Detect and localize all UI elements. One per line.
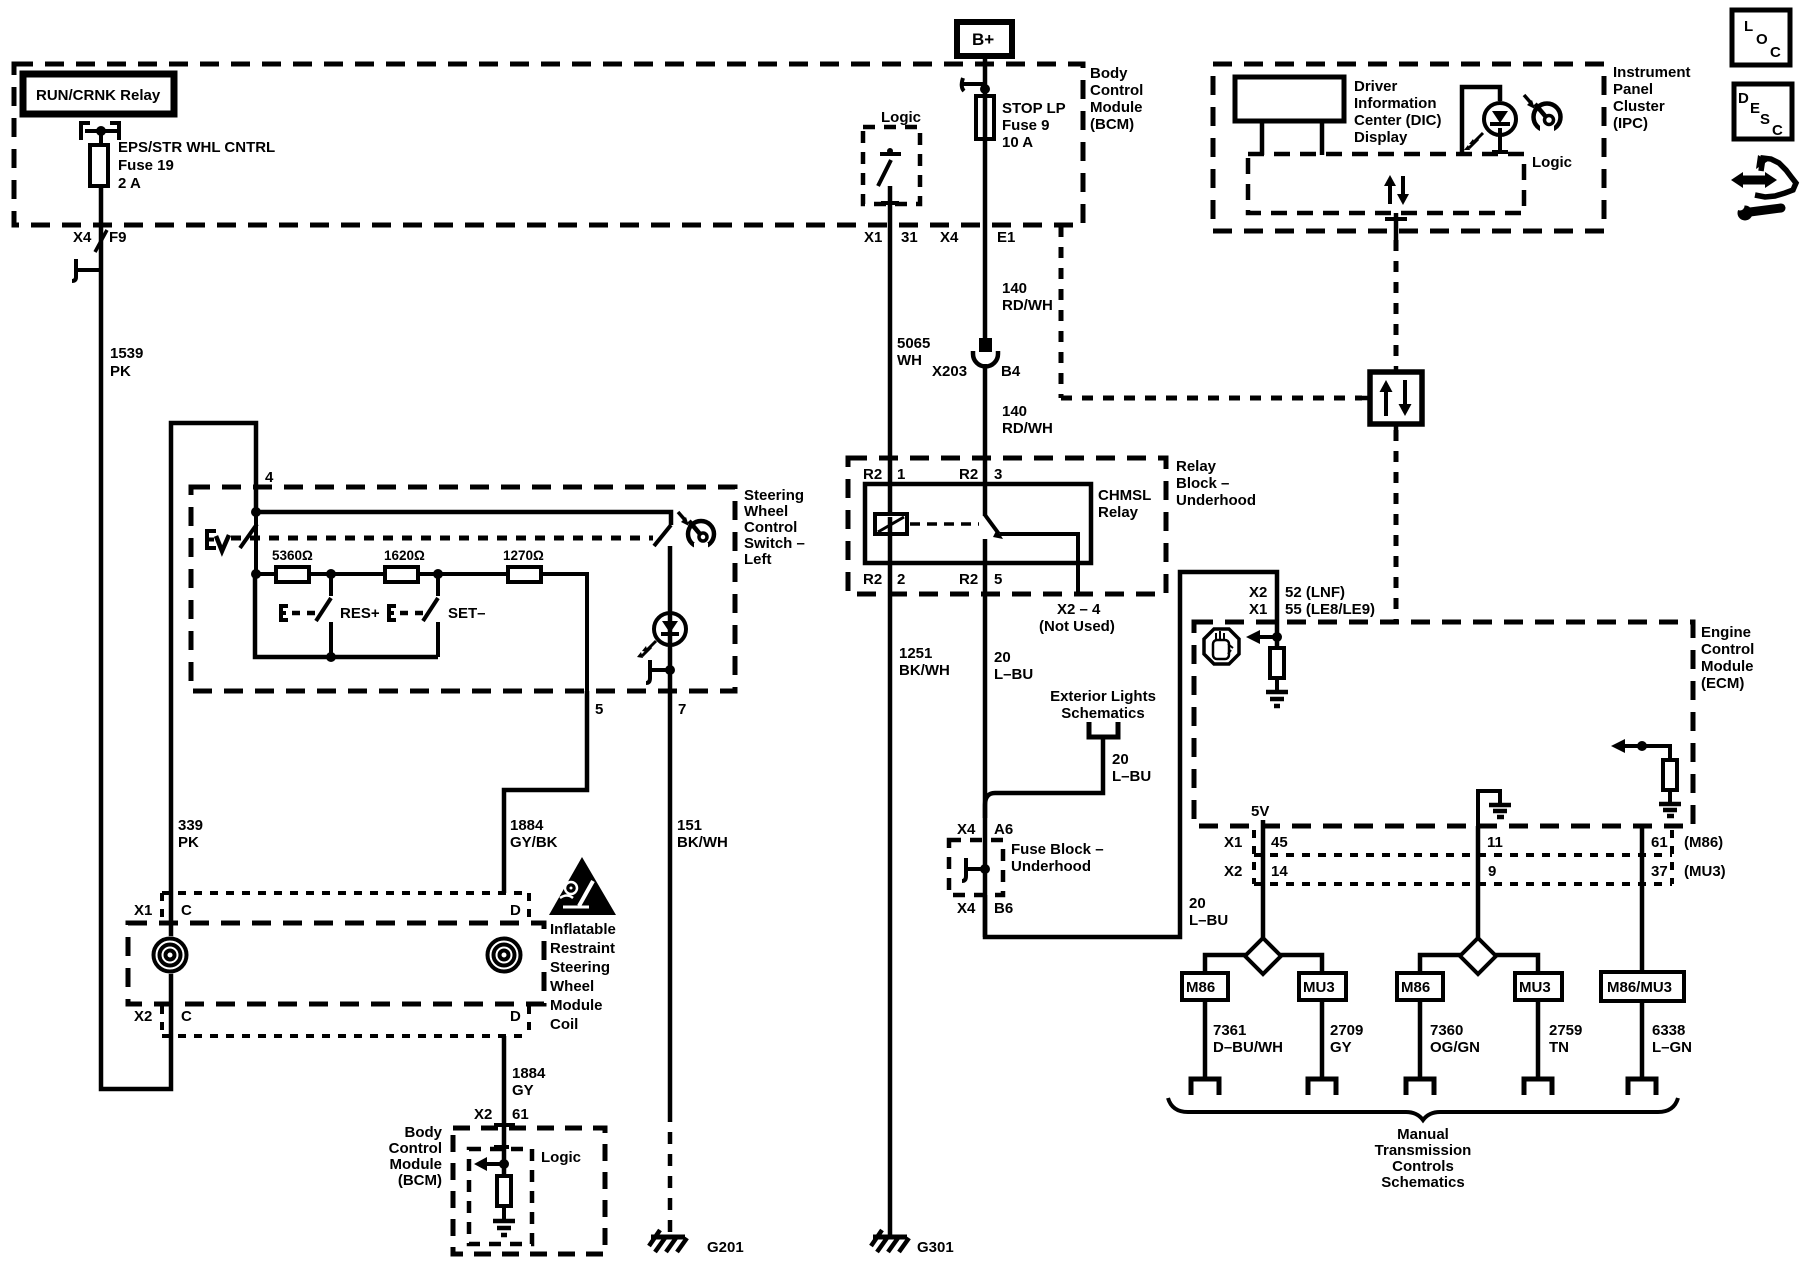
svg-text:Underhood: Underhood — [1176, 492, 1256, 509]
bottom bus resistor switches — [255, 574, 438, 657]
logic box BCM2 — [469, 1149, 532, 1244]
svg-text:Inflatable: Inflatable — [550, 921, 616, 938]
svg-text:Schematics: Schematics — [1061, 705, 1144, 722]
svg-text:Module: Module — [1701, 658, 1754, 675]
pin label X4 E1 — [940, 229, 1015, 246]
wire 1251 BK/WH relay to G301 — [888, 517, 893, 1237]
serial data wire BCM to link box (dashed) — [1061, 226, 1362, 398]
svg-text:X4: X4 — [957, 821, 976, 838]
wire branch to MU3 right — [1279, 955, 1322, 973]
svg-text:14: 14 — [1271, 863, 1288, 880]
wire branch to MU3 (2) — [1494, 955, 1538, 973]
switch onoff blade — [240, 524, 257, 548]
power node B+ — [957, 22, 1012, 56]
svg-text:140: 140 — [1002, 403, 1027, 420]
wire 20 L-BU relay R2-5 down — [983, 539, 988, 937]
LED photon arrows — [1464, 133, 1483, 150]
module box BCM (bottom) — [453, 1128, 605, 1254]
connector slash X4/F9 — [95, 230, 107, 252]
svg-text:Steering: Steering — [744, 487, 804, 504]
label CHMSL Relay — [1098, 487, 1151, 521]
svg-text:G301: G301 — [917, 1239, 954, 1256]
splice diamond 2 — [1460, 938, 1496, 974]
svg-text:(BCM): (BCM) — [398, 1172, 442, 1189]
svg-text:S: S — [1760, 111, 1770, 128]
pin label R2 3 — [959, 466, 1002, 483]
svg-text:SET–: SET– — [448, 605, 486, 622]
wire 5V sensor feed — [1261, 820, 1266, 940]
pin tick logic box — [881, 201, 899, 205]
junction dot pin4 — [251, 507, 261, 517]
svg-text:Center (DIC): Center (DIC) — [1354, 112, 1442, 129]
svg-text:1: 1 — [897, 466, 905, 483]
svg-text:1270Ω: 1270Ω — [503, 548, 544, 563]
svg-text:X2: X2 — [1249, 584, 1267, 601]
icon open arrow head — [1756, 155, 1768, 169]
svg-text:GY/BK: GY/BK — [510, 834, 558, 851]
module box Instrument Panel Cluster IPC — [1213, 64, 1604, 231]
option box M86 (1) — [1182, 973, 1228, 1000]
svg-text:2: 2 — [897, 571, 905, 588]
svg-text:Wheel: Wheel — [744, 503, 788, 520]
junction dot ECM pin61 — [1637, 741, 1647, 751]
DIC display box — [1235, 77, 1344, 121]
svg-text:45: 45 — [1271, 834, 1288, 851]
pin label X2 52 LNF — [1249, 584, 1345, 601]
wire label 20 L-BU — [994, 649, 1033, 683]
pin label X1 31 — [864, 229, 918, 246]
svg-text:Fuse 9: Fuse 9 — [1002, 117, 1050, 134]
svg-text:Block –: Block – — [1176, 475, 1229, 492]
resistor R 1270 — [503, 548, 544, 582]
svg-text:R2: R2 — [959, 466, 978, 483]
serial link arrows — [1380, 380, 1412, 416]
resistor R 5360 — [272, 548, 313, 582]
ground BCM2 internal — [493, 1221, 515, 1235]
pin label X4 F9 — [73, 229, 127, 246]
svg-text:B+: B+ — [972, 30, 994, 49]
wire label 7361 D-BU/WH — [1213, 1022, 1283, 1056]
svg-text:RD/WH: RD/WH — [1002, 297, 1053, 314]
svg-text:PK: PK — [178, 834, 199, 851]
option box M86/MU3 — [1601, 972, 1684, 1001]
serial data link box — [1362, 366, 1422, 430]
label Fuse Block Underhood — [1011, 841, 1104, 875]
wire top bus in switch — [256, 512, 671, 525]
svg-text:M86: M86 — [1186, 979, 1215, 996]
wire branch to M86 left — [1205, 955, 1247, 973]
wire label 2759 TN — [1549, 1022, 1582, 1056]
switch RES+ stub — [329, 574, 333, 596]
offpage connector 1 — [1191, 1079, 1219, 1095]
svg-text:RES+: RES+ — [340, 605, 380, 622]
svg-text:Fuse Block –: Fuse Block – — [1011, 841, 1104, 858]
wire 5065 WH from BCM logic to relay R2-1 — [888, 186, 893, 517]
switch SET- contact — [436, 622, 440, 657]
svg-text:20: 20 — [1189, 895, 1206, 912]
svg-text:D: D — [510, 1008, 521, 1025]
svg-text:Engine: Engine — [1701, 624, 1751, 641]
svg-text:D: D — [510, 902, 521, 919]
svg-text:E1: E1 — [997, 229, 1015, 246]
option box M86 (2) — [1397, 973, 1443, 1000]
signal arrow left — [474, 1157, 504, 1171]
svg-text:X4: X4 — [73, 229, 92, 246]
connector hook below F9 — [72, 259, 101, 281]
svg-text:CHMSL: CHMSL — [1098, 487, 1151, 504]
label ECM — [1701, 624, 1754, 692]
fuse F9 STOP LP 10A — [976, 96, 994, 139]
wire label 1884 GY — [512, 1065, 546, 1099]
pin label X4 A6 — [957, 821, 1013, 838]
LED bracket IPC — [1462, 87, 1500, 154]
svg-text:5: 5 — [994, 571, 1002, 588]
connector row X2 C D (bottom) — [162, 1006, 529, 1036]
option box MU3 (1) — [1299, 973, 1346, 1000]
svg-text:2759: 2759 — [1549, 1022, 1582, 1039]
label steering wheel switch — [744, 487, 805, 568]
coil spiral left — [151, 936, 189, 974]
module box SWM coil — [128, 923, 544, 1004]
icon double arrow — [1731, 172, 1777, 188]
svg-text:Controls: Controls — [1392, 1158, 1454, 1175]
resistor ECM pin61 branch — [1642, 746, 1677, 803]
svg-text:MU3: MU3 — [1303, 979, 1335, 996]
relay coil — [875, 514, 907, 534]
junction dot fuse top — [96, 126, 106, 136]
LED indicator IPC — [1484, 103, 1516, 154]
actuator E RES+ — [281, 606, 288, 620]
svg-text:Control: Control — [1701, 641, 1754, 658]
module box Steering Wheel Control Switch Left — [191, 487, 735, 691]
svg-text:EPS/STR WHL CNTRL: EPS/STR WHL CNTRL — [118, 139, 275, 156]
svg-text:61: 61 — [1651, 834, 1668, 851]
wire 7361 D-BU/WH — [1203, 1000, 1208, 1079]
node label X2-4 Not Used — [1039, 601, 1115, 635]
connector hook fuse block — [962, 858, 985, 881]
signal arrow ECM right — [1611, 739, 1642, 753]
svg-text:Control: Control — [389, 1140, 442, 1157]
svg-text:5: 5 — [595, 701, 603, 718]
wire label 5065 WH — [897, 335, 930, 369]
connector row X1 C D (top) — [162, 893, 529, 921]
splice diamond 1 — [1245, 938, 1281, 974]
wire into BCM2 — [502, 1180, 506, 1221]
wire label 140 RD/WH (upper) — [1002, 280, 1053, 314]
svg-text:RUN/CRNK Relay: RUN/CRNK Relay — [36, 87, 161, 104]
offpage connector 3 — [1406, 1079, 1434, 1095]
svg-text:M86/MU3: M86/MU3 — [1607, 979, 1672, 996]
junction dot after R1 — [326, 569, 336, 579]
svg-text:D: D — [1738, 90, 1749, 107]
LED photon arrows steering — [637, 641, 656, 658]
svg-text:MU3: MU3 — [1519, 979, 1551, 996]
pin tick logic2 top — [494, 1145, 509, 1149]
svg-text:Steering: Steering — [550, 959, 610, 976]
svg-text:R2: R2 — [863, 571, 882, 588]
svg-text:5V: 5V — [1251, 803, 1269, 820]
switch SET- stub — [436, 574, 440, 596]
icon wrench — [1736, 202, 1782, 221]
cruise gauge icon steering — [678, 512, 714, 551]
offpage label Exterior Lights Schematics — [1050, 688, 1156, 722]
switch onoff actuator E — [207, 531, 216, 548]
svg-text:C: C — [181, 902, 192, 919]
value label Fuse 19 — [118, 139, 275, 192]
switch SET- blade — [423, 598, 438, 621]
svg-text:Switch –: Switch – — [744, 535, 805, 552]
inline connector X203 B4 terminal — [979, 338, 992, 352]
svg-text:B4: B4 — [1001, 363, 1021, 380]
label IPC — [1613, 64, 1691, 132]
mech link RES+ — [292, 611, 316, 616]
wire vertical to resistor row — [254, 512, 258, 574]
label BCM — [1090, 65, 1143, 133]
reference box DESC — [1734, 84, 1792, 139]
offpage bracket exterior lights — [1089, 722, 1118, 737]
pin label R2 2 — [863, 571, 905, 588]
wire 140 RD/WH lower segment — [983, 364, 988, 516]
wire label 1539 PK — [110, 345, 143, 380]
svg-text:20: 20 — [1112, 751, 1129, 768]
pin tick LED to logic — [1492, 150, 1508, 154]
svg-text:X203: X203 — [932, 363, 967, 380]
svg-text:Exterior Lights: Exterior Lights — [1050, 688, 1156, 705]
svg-text:2709: 2709 — [1330, 1022, 1363, 1039]
svg-text:Relay: Relay — [1098, 504, 1139, 521]
inline connector cup — [973, 351, 998, 367]
wire label 6338 L-GN — [1652, 1022, 1692, 1056]
switch RES+ blade — [316, 598, 331, 621]
wire label 20 L-BU branch — [1112, 751, 1151, 785]
svg-text:TN: TN — [1549, 1039, 1569, 1056]
mech link dotted steering — [231, 536, 653, 541]
connector hook at BCM top — [962, 78, 985, 91]
svg-text:X2: X2 — [134, 1008, 152, 1025]
svg-text:Instrument: Instrument — [1613, 64, 1691, 81]
svg-text:C: C — [181, 1008, 192, 1025]
svg-text:L–GN: L–GN — [1652, 1039, 1692, 1056]
svg-text:Logic: Logic — [1532, 154, 1572, 171]
svg-text:X2: X2 — [1224, 863, 1242, 880]
svg-text:(IPC): (IPC) — [1613, 115, 1648, 132]
svg-text:1620Ω: 1620Ω — [384, 548, 425, 563]
label Relay Block — [1176, 458, 1256, 509]
wire 7360 OG/GN — [1418, 1000, 1423, 1079]
svg-text:E: E — [1750, 100, 1760, 117]
svg-text:GY: GY — [1330, 1039, 1352, 1056]
svg-text:(Not Used): (Not Used) — [1039, 618, 1115, 635]
svg-text:Module: Module — [1090, 99, 1143, 116]
svg-text:Information: Information — [1354, 95, 1437, 112]
svg-text:X2: X2 — [474, 1106, 492, 1123]
svg-text:5360Ω: 5360Ω — [272, 548, 313, 563]
svg-text:6338: 6338 — [1652, 1022, 1685, 1039]
svg-text:10 A: 10 A — [1002, 134, 1033, 151]
wire label 140 RD/WH (lower) — [1002, 403, 1053, 437]
module box Engine Control Module ECM — [1194, 622, 1693, 826]
offpage connector 4 — [1524, 1079, 1552, 1095]
svg-text:2 A: 2 A — [118, 175, 141, 192]
relay switch contact to X2-4 — [1000, 534, 1078, 594]
svg-text:Display: Display — [1354, 129, 1408, 146]
svg-text:3: 3 — [994, 466, 1002, 483]
svg-text:R2: R2 — [959, 571, 978, 588]
junction dot hook steering — [665, 665, 675, 675]
svg-text:A6: A6 — [994, 821, 1013, 838]
junction dot below hook — [980, 84, 990, 94]
wire 151 BK/WH pin7 — [668, 691, 673, 1110]
wire dashed to G201 — [668, 1110, 673, 1235]
svg-text:R2: R2 — [863, 466, 882, 483]
LED indicator steering — [654, 613, 686, 645]
svg-text:Module: Module — [390, 1156, 443, 1173]
serial wire IPC stub — [1394, 213, 1399, 240]
ground G301 — [871, 1230, 954, 1256]
svg-text:Panel: Panel — [1613, 81, 1653, 98]
ground ECM internal 3 — [1659, 804, 1681, 816]
wire label 1884 GY/BK — [510, 817, 558, 851]
svg-text:X4: X4 — [940, 229, 959, 246]
svg-text:Module: Module — [550, 997, 603, 1014]
svg-text:F9: F9 — [109, 229, 127, 246]
coil spiral right — [485, 936, 523, 974]
wire label 7360 OG/GN — [1430, 1022, 1480, 1056]
junction dot resistor row — [251, 569, 261, 579]
ground ECM internal 1 — [1266, 692, 1288, 706]
pin label R2 1 — [863, 466, 905, 483]
svg-text:Underhood: Underhood — [1011, 858, 1091, 875]
svg-text:C: C — [1772, 122, 1783, 139]
svg-text:RD/WH: RD/WH — [1002, 420, 1053, 437]
svg-text:(M86): (M86) — [1684, 834, 1723, 851]
svg-text:9: 9 — [1488, 863, 1496, 880]
wire 1539 PK vertical + bottom loop to pin 4 — [101, 186, 256, 1089]
svg-text:G201: G201 — [707, 1239, 744, 1256]
svg-text:X1: X1 — [1249, 601, 1267, 618]
svg-text:31: 31 — [901, 229, 918, 246]
svg-text:D–BU/WH: D–BU/WH — [1213, 1039, 1283, 1056]
mech link SET- — [400, 611, 423, 616]
svg-text:STOP LP: STOP LP — [1002, 100, 1066, 117]
actuator E SET- — [389, 606, 396, 620]
svg-text:55 (LE8/LE9): 55 (LE8/LE9) — [1285, 601, 1375, 618]
signal arrow ECM left — [1246, 630, 1277, 644]
resistor ECM 52/55 pulldown — [1270, 648, 1284, 678]
switch RES+ contact — [329, 622, 333, 657]
svg-text:X1: X1 — [1224, 834, 1242, 851]
svg-text:L–BU: L–BU — [994, 666, 1033, 683]
svg-text:(MU3): (MU3) — [1684, 863, 1726, 880]
svg-text:151: 151 — [677, 817, 702, 834]
svg-text:O: O — [1756, 31, 1768, 48]
offpage connector 2 — [1308, 1079, 1336, 1095]
connector hook steering — [646, 660, 670, 683]
svg-text:4: 4 — [265, 469, 274, 486]
pin labels X2 C D — [134, 1008, 521, 1025]
svg-text:M86: M86 — [1401, 979, 1430, 996]
module box Body Control Module BCM (top) — [14, 64, 1083, 225]
wire label 2709 GY — [1330, 1022, 1363, 1056]
svg-text:11: 11 — [1487, 834, 1503, 851]
label Manual Transmission Controls Schematics — [1375, 1126, 1472, 1191]
wire pin 61 to M86/MU3 — [1640, 826, 1645, 972]
offpage connector 5 — [1628, 1079, 1656, 1095]
fuse holder bracket — [81, 123, 119, 140]
svg-text:7361: 7361 — [1213, 1022, 1246, 1039]
svg-text:X1: X1 — [134, 902, 152, 919]
value label Fuse 9 — [1002, 100, 1066, 151]
svg-text:C: C — [1770, 44, 1781, 61]
svg-text:Body: Body — [405, 1124, 443, 1141]
svg-text:1251: 1251 — [899, 645, 932, 662]
switch nub — [887, 148, 893, 154]
wire pin 11 to diamond 2 — [1476, 826, 1481, 940]
svg-text:X4: X4 — [957, 900, 976, 917]
junction dot fuse block — [980, 864, 990, 874]
resistor R 1620 — [384, 548, 425, 582]
svg-text:7360: 7360 — [1430, 1022, 1463, 1039]
svg-text:BK/WH: BK/WH — [677, 834, 728, 851]
stop hand icon — [1204, 629, 1239, 664]
wire label 339 PK — [178, 817, 203, 851]
serial data wire IPC to link box (dashed) — [1394, 240, 1399, 366]
cruise gauge icon IPC — [1524, 95, 1561, 135]
cruise switch blade right — [654, 525, 671, 546]
svg-text:L: L — [1744, 18, 1753, 35]
icon open arrow — [1755, 158, 1796, 197]
wire 2759 TN — [1536, 1000, 1541, 1079]
DIC legs — [1262, 121, 1322, 155]
svg-text:Relay: Relay — [1176, 458, 1217, 475]
pin labels row X1 45 11 61 M86 — [1224, 834, 1723, 851]
pin tick IPC bottom — [1385, 217, 1407, 221]
junction dot arrow — [499, 1159, 509, 1169]
svg-text:PK: PK — [110, 363, 131, 380]
svg-text:Fuse 19: Fuse 19 — [118, 157, 174, 174]
svg-text:Wheel: Wheel — [550, 978, 594, 995]
junction dot bottom bus — [326, 652, 336, 662]
svg-text:61: 61 — [512, 1106, 529, 1123]
svg-text:Restraint: Restraint — [550, 940, 615, 957]
svg-text:52 (LNF): 52 (LNF) — [1285, 584, 1345, 601]
wire label 151 BK/WH — [677, 817, 728, 851]
junction dot after R2 — [433, 569, 443, 579]
pin label X4 B6 — [957, 900, 1013, 917]
svg-text:339: 339 — [178, 817, 203, 834]
svg-text:Logic: Logic — [541, 1149, 581, 1166]
svg-text:WH: WH — [897, 352, 922, 369]
svg-text:Logic: Logic — [881, 109, 921, 126]
pin tick BCM2 top — [494, 1123, 515, 1127]
svg-text:L–BU: L–BU — [1189, 912, 1228, 929]
wire resistor to ground — [1275, 678, 1279, 692]
logic box BCM internal — [863, 109, 921, 204]
label DIC — [1354, 78, 1442, 146]
wire 20 L-BU to ECM 52/55 — [985, 572, 1277, 937]
wire 1884 GY/BK pin5 to coil — [504, 691, 587, 893]
connector label X203 B4 — [932, 363, 1021, 380]
label BCM bottom — [389, 1124, 443, 1189]
svg-text:(ECM): (ECM) — [1701, 675, 1744, 692]
warning triangle airbag — [549, 857, 616, 915]
svg-text:Control: Control — [744, 519, 797, 536]
wire label 20 L-BU vertical — [1189, 895, 1228, 929]
resistor BCM2 pulldown — [497, 1176, 511, 1206]
option box MU3 (2) — [1515, 973, 1562, 1000]
pin label X2 61 — [474, 1106, 529, 1123]
svg-text:OG/GN: OG/GN — [1430, 1039, 1480, 1056]
